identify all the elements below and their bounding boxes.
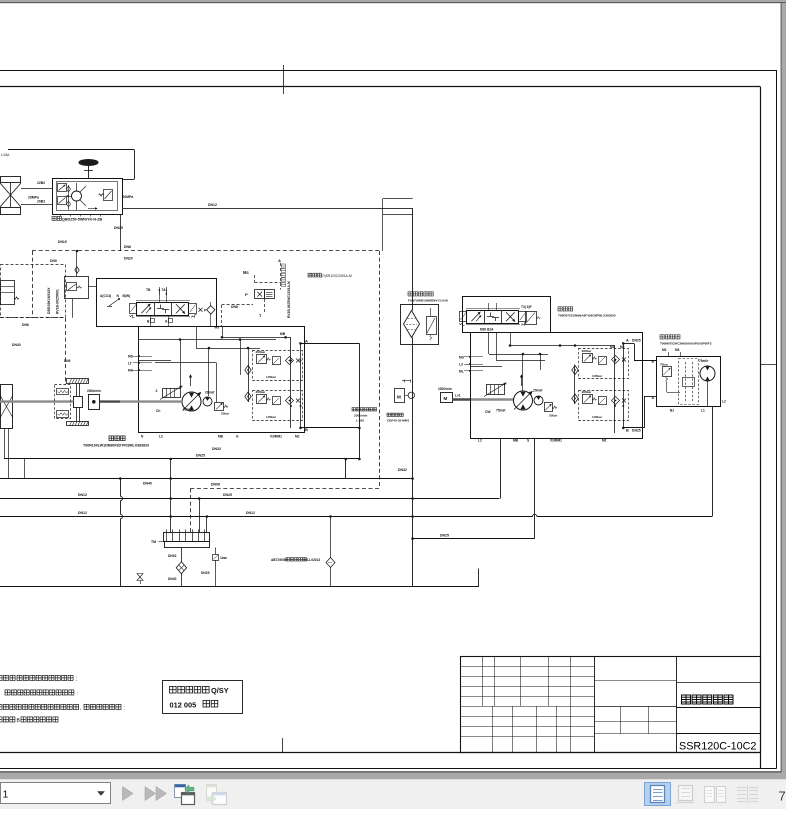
pump2 servo cylinder <box>487 385 505 395</box>
title block middle grid <box>594 680 677 682</box>
svg-text:DN8: DN8 <box>231 305 238 309</box>
wire pump1 AB riser to bus <box>359 343 361 459</box>
svg-text:TA: TA <box>162 288 167 292</box>
svg-text::: : <box>77 691 78 697</box>
steering unit left valve square 2 <box>58 197 67 205</box>
dashed route DN08 drop to manifold <box>190 488 192 533</box>
svg-text:L3: L3 <box>459 363 463 367</box>
pump1 control valve sub-box <box>97 279 217 327</box>
tank return manifold TM <box>164 533 210 542</box>
return filter bypass valve <box>427 317 437 335</box>
wire DN40 drop to manifold <box>170 459 172 533</box>
svg-text:DN25: DN25 <box>632 339 641 343</box>
svg-text:DN08: DN08 <box>211 483 220 487</box>
page number combo box <box>0 783 110 804</box>
wire solenoid block to pump1 valve box <box>88 286 96 288</box>
bus L1 DN25 <box>4 458 359 460</box>
pump2 valve pilot ports <box>488 303 490 310</box>
svg-text:2300/min: 2300/min <box>438 387 452 391</box>
svg-text:A: A <box>305 339 308 344</box>
pump2 internal control wires <box>510 333 512 346</box>
svg-text:DN12: DN12 <box>78 511 87 515</box>
port-A callout corner <box>382 199 384 215</box>
bus L2 DN40 <box>0 478 413 480</box>
wire L5 drop to manifold <box>206 517 208 533</box>
sheet inner frame top <box>0 86 761 88</box>
return filter label <box>408 292 433 296</box>
vibration motor box <box>657 357 721 407</box>
dashed route DN6 left drop <box>32 251 34 318</box>
pump2 name label <box>558 307 573 311</box>
air breather symbol <box>137 574 143 578</box>
return filter drain stub <box>330 517 332 559</box>
svg-text:Mc: Mc <box>243 270 249 275</box>
svg-text:A: A <box>626 339 629 343</box>
svg-text:DN6: DN6 <box>64 359 71 363</box>
label block measuring point <box>352 408 377 411</box>
svg-text:380bar: 380bar <box>582 390 593 394</box>
svg-text:95ml/r: 95ml/r <box>183 408 193 412</box>
steering unit U-ST box <box>53 179 123 215</box>
wire L4 drop to manifold <box>199 499 201 533</box>
svg-text:012 005: 012 005 <box>170 700 197 709</box>
svg-text:1bar: 1bar <box>220 556 228 560</box>
steering unit inner frame <box>57 182 118 211</box>
svg-text:25ml/r: 25ml/r <box>533 389 543 393</box>
dashed pilot Mc lines <box>254 275 256 282</box>
bus L4 DN25 <box>0 498 500 500</box>
dashed route DN08 horizontal <box>190 488 379 490</box>
svg-text:MB: MB <box>280 332 286 336</box>
svg-text:DN25: DN25 <box>196 454 205 458</box>
vibration motor label <box>660 335 680 339</box>
solenoid block drain <box>72 299 74 318</box>
label block coupling model <box>387 413 403 416</box>
svg-text:380bar: 380bar <box>256 350 267 354</box>
notes line 4 <box>0 717 15 722</box>
viewer top shadow strip <box>0 0 786 2</box>
svg-text:145bar: 145bar <box>266 415 277 419</box>
steering unit check to P <box>88 208 97 210</box>
wire pump1 A line <box>301 343 360 345</box>
svg-text:DBDS6K18/315X: DBDS6K18/315X <box>47 287 51 314</box>
svg-text:ML: ML <box>459 370 464 374</box>
svg-text:DN25: DN25 <box>223 493 232 497</box>
steering unit model label <box>52 216 62 220</box>
svg-text:,: , <box>80 706 81 712</box>
svg-text:(O)SR120C2051A-M: (O)SR120C2051A-M <box>321 274 352 278</box>
steering unit port ticks <box>60 214 62 217</box>
svg-text:L1: L1 <box>701 409 705 413</box>
svg-text:75: 75 <box>779 789 786 804</box>
steering unit rotor link <box>80 186 86 192</box>
svg-text:DN12: DN12 <box>78 493 87 497</box>
motor relief valve <box>663 367 672 377</box>
dashed route DN6 right drop <box>379 251 381 488</box>
motor flushing shuttle dashed <box>679 359 699 405</box>
svg-text:B: B <box>652 360 655 364</box>
pump1 up arrow <box>190 375 192 386</box>
drum shaft drive line <box>0 400 73 402</box>
steering cylinder SC1 (cut at left edge) <box>1 177 21 183</box>
title block outline <box>461 657 761 753</box>
svg-text:ABT2900E: ABT2900E <box>271 558 287 562</box>
steering unit left valve square 1 <box>58 184 67 192</box>
layout continuous button (disabled) <box>679 786 693 801</box>
wire DN12 to filter (long top wire) <box>122 208 413 210</box>
svg-text:M2: M2 <box>602 439 607 443</box>
svg-text:M2: M2 <box>610 345 615 349</box>
check valve to DN6 bus <box>76 251 78 276</box>
svg-text:P: P <box>245 292 248 297</box>
drum damper dashed box <box>55 385 71 419</box>
wire steering port stub to pilot bus <box>120 214 122 251</box>
pilot valve T drain dashed <box>264 299 266 312</box>
svg-text:22B2: 22B2 <box>37 181 45 185</box>
svg-text:T90M075ZHC3N08A8A5PG65PB/F3: T90M075ZHC3N08A8A5PG65PB/F3 <box>660 342 712 346</box>
tank line <box>0 586 479 588</box>
pressure gauge M box <box>395 389 405 403</box>
svg-text:B1: B1 <box>670 409 674 413</box>
layout single-page button (active) <box>645 783 671 806</box>
pump1 main box <box>139 327 305 433</box>
svg-text:S: S <box>527 439 529 443</box>
pump1 charge check valves <box>248 365 250 403</box>
wire steering return top <box>8 149 134 151</box>
layout two-page-continuous button (disabled) <box>737 787 746 789</box>
svg-text:M30 B1A: M30 B1A <box>480 328 494 332</box>
sheet inner frame right <box>760 87 762 769</box>
svg-text:20MPa: 20MPa <box>123 195 134 199</box>
toolbar background <box>0 779 786 809</box>
steering wheel <box>79 160 98 166</box>
pump1 valve manual lever <box>109 299 119 306</box>
dashed pilot drop to M3 <box>221 305 223 327</box>
svg-text:DN32: DN32 <box>398 468 407 472</box>
vibratory drum lower bearing <box>67 422 89 426</box>
title block drawing name text (hydraulic schematic) <box>682 695 734 704</box>
wire pump2 case drain to filter column <box>534 438 536 539</box>
drum damper lower <box>57 411 69 418</box>
pump1 multifunction block upper <box>253 351 303 381</box>
wire steering return drop <box>134 150 136 180</box>
pump1 X-P check diamond <box>199 308 203 312</box>
accumulator/valve (cut at edge) <box>1 281 15 305</box>
svg-text:DN02: DN02 <box>168 554 177 558</box>
pump1 drive shaft in <box>100 400 121 402</box>
pilot supply dashed box left <box>1 265 66 318</box>
dashed route bottom-left horizontal <box>0 317 65 319</box>
wire pump2 A to motor <box>623 343 634 345</box>
tank breather valve 1bar <box>215 548 217 555</box>
svg-text:75ml/r: 75ml/r <box>496 409 506 413</box>
svg-text:Ch: Ch <box>156 409 160 413</box>
svg-text:380bar: 380bar <box>582 349 593 353</box>
wire steering cylinder to steering unit port R <box>21 204 52 206</box>
svg-text:M2: M2 <box>662 348 667 352</box>
gauge coupling arrow <box>402 380 410 382</box>
toolbar last-page button <box>145 787 156 801</box>
svg-text:145bar: 145bar <box>592 374 603 378</box>
svg-text:X3/MM1: X3/MM1 <box>270 435 282 439</box>
svg-text:2: 2 <box>156 389 158 393</box>
solenoid block valve <box>67 283 77 291</box>
steering unit metering rotor <box>72 191 82 201</box>
svg-text:M: M <box>397 395 401 400</box>
svg-text:DN40: DN40 <box>143 482 152 486</box>
svg-text:T90R075ZON8NA8F4J8G8PWLX383830: T90R075ZON8NA8F4J8G8PWLX383830 <box>558 314 616 318</box>
svg-text:DN25: DN25 <box>440 534 449 538</box>
wire filter inlet <box>412 208 414 311</box>
inline strainer ABT2900E <box>326 558 335 568</box>
wire L5 riser to motor drain <box>712 407 714 517</box>
svg-text:145bar: 145bar <box>266 375 277 379</box>
title block right column rows <box>677 682 761 684</box>
wire pump2 L2 drain <box>500 438 502 499</box>
svg-text:DN32: DN32 <box>212 447 221 451</box>
svg-text:L2: L2 <box>159 435 163 439</box>
pump2 main pump P2 (75ml/r) <box>514 391 533 410</box>
drum damper upper <box>57 389 69 395</box>
sheet centering mark right <box>761 364 777 366</box>
svg-text:DN6: DN6 <box>22 323 29 327</box>
bus L5 DN12 <box>0 516 533 518</box>
svg-text:230b/min: 230b/min <box>87 389 101 393</box>
svg-text:DN25: DN25 <box>632 429 641 433</box>
svg-text:M2: M2 <box>295 435 300 439</box>
sheet centering mark bottom <box>282 738 284 753</box>
svg-text:1: 1 <box>3 789 9 801</box>
svg-text:MB: MB <box>218 435 224 439</box>
pump1 A/B risers <box>290 337 292 428</box>
svg-text:A(CC4): A(CC4) <box>100 294 111 298</box>
left travel gearbox (cut at edge) <box>1 385 13 429</box>
drum shaft <box>76 383 78 421</box>
tank line stub up <box>478 569 480 587</box>
svg-text:LT: LT <box>128 362 132 366</box>
svg-text:T3( 3)P: T3( 3)P <box>521 305 533 309</box>
return filter element <box>404 311 420 338</box>
motor M1 symbol <box>700 366 715 381</box>
svg-text:RV1B-06Z5W01: RV1B-06Z5W01 <box>56 289 60 314</box>
svg-text:QBDZ50-5WN/YK-N-ZB: QBDZ50-5WN/YK-N-ZB <box>62 218 102 222</box>
sheet outer border right <box>776 70 778 769</box>
svg-text:DN25: DN25 <box>114 226 123 230</box>
pump2 main box <box>471 333 643 439</box>
svg-text:DN12: DN12 <box>246 511 255 515</box>
svg-text:011-02013: 011-02013 <box>305 558 320 562</box>
label ABT2900E strainer <box>0 0 1 1</box>
pump2 directional valve DV2 <box>466 308 520 310</box>
steering unit check valves <box>68 185 70 210</box>
svg-text:B: B <box>626 429 629 433</box>
horizontal text manifold model <box>308 273 321 277</box>
svg-text:M3: M3 <box>620 345 625 349</box>
wire callout to pilot bus <box>382 215 384 251</box>
wire pump1 B line <box>301 427 360 429</box>
svg-text:CBF45-25-MM1: CBF45-25-MM1 <box>387 419 409 423</box>
viewer bottom background band <box>0 771 782 772</box>
svg-text:L2: L2 <box>478 439 482 443</box>
dashed route to drum box <box>65 318 67 385</box>
pump2 control valve sub-box <box>463 297 551 333</box>
pump1 charge relief valve <box>215 403 224 411</box>
svg-text:M3: M3 <box>675 348 680 352</box>
wire drain link <box>24 459 26 479</box>
svg-text:20B2: 20B2 <box>37 200 45 204</box>
svg-text:B(W): B(W) <box>123 294 131 298</box>
toolbar previous-view icon <box>175 785 186 798</box>
dashed pilot to main valve <box>222 304 253 306</box>
svg-text:TB: TB <box>146 288 151 292</box>
pump2 up arrow <box>521 375 523 386</box>
pump2 A/B risers <box>614 346 616 434</box>
svg-text:X3/MM1: X3/MM1 <box>550 439 562 443</box>
sheet outer border top <box>0 70 777 72</box>
title block vertical divider middle <box>676 656 678 752</box>
pump2 aux valve <box>526 312 537 325</box>
drum vibration motor M <box>89 395 100 410</box>
svg-text:Lv1: Lv1 <box>455 394 461 398</box>
svg-text:Q/SY: Q/SY <box>211 686 229 695</box>
svg-text:DN9: DN9 <box>50 259 57 263</box>
svg-text:L2: L2 <box>722 400 726 404</box>
svg-text::: : <box>124 706 125 712</box>
svg-text:DN12: DN12 <box>208 203 217 207</box>
svg-text:SSR120C-10C2: SSR120C-10C2 <box>679 740 756 752</box>
pump2 multifunction block lower <box>579 391 629 421</box>
svg-text:L15A: L15A <box>1 153 10 157</box>
svg-text:CW: CW <box>485 410 491 414</box>
notes line 1 <box>0 675 9 680</box>
sheet inner frame bottom <box>0 752 761 754</box>
svg-text:;: ; <box>76 677 77 683</box>
product standard box <box>163 681 243 714</box>
solenoid block sub-box <box>65 277 89 299</box>
bus L1 step down <box>345 459 347 479</box>
pump2 charge pump <box>534 396 543 405</box>
pump1 charge pump <box>203 397 212 406</box>
pump1 directional valve DV1 <box>136 300 190 302</box>
pump2 charge relief valve <box>545 403 553 412</box>
svg-text:L-420: L-420 <box>356 419 364 423</box>
return filter box <box>401 305 439 345</box>
wire filter outlet to tank bus <box>412 338 414 587</box>
sheet outer border bottom <box>0 768 777 770</box>
layout two-page button (disabled) <box>705 787 715 803</box>
svg-text:MS: MS <box>459 356 465 360</box>
pump2 drive shaft <box>452 398 470 400</box>
svg-text:MA: MA <box>128 369 134 373</box>
wire pump2 B to motor <box>623 427 644 429</box>
viewer right background band <box>782 3 786 779</box>
steering unit relief valve <box>104 190 113 201</box>
svg-text:A: A <box>278 258 281 263</box>
title block vertical divider left-table <box>594 656 596 752</box>
svg-text:A: A <box>652 396 655 400</box>
svg-text:DN15: DN15 <box>58 240 67 244</box>
sheet centering mark top <box>283 65 285 94</box>
wire gearbox drains <box>4 428 6 459</box>
svg-text:145bar: 145bar <box>592 415 603 419</box>
svg-text:DN20: DN20 <box>124 257 133 261</box>
svg-text:MB: MB <box>513 439 519 443</box>
pump1 multifunction block lower <box>253 391 303 421</box>
notes line 2 <box>5 690 74 695</box>
svg-text:380bar: 380bar <box>256 390 267 394</box>
wire DN40 drop to tank line <box>120 479 122 497</box>
notes line 3 <box>0 704 79 709</box>
svg-text:TM: TM <box>151 540 156 544</box>
svg-text:T90R100LW1NN80F3DTF03MLX383820: T90R100LW1NN80F3DTF03MLX383820 <box>83 443 149 447</box>
svg-text:DN40: DN40 <box>12 343 21 347</box>
pump2 multifunction block upper <box>579 349 629 379</box>
pump1 main pump P1 (95ml/r) <box>182 392 201 411</box>
toolbar next-view icon (disabled) <box>207 785 218 798</box>
svg-text:28ml/r: 28ml/r <box>205 391 215 395</box>
svg-text:FAN7AWB100MDNV-CL04A: FAN7AWB100MDNV-CL04A <box>408 299 449 303</box>
drum eccentric gearbox <box>74 397 83 408</box>
wire steering cylinder to steering unit port L <box>21 188 52 190</box>
svg-text:DN40: DN40 <box>168 577 177 581</box>
gauge quick coupling <box>405 395 409 397</box>
vertical text steering priority valve model <box>282 264 286 287</box>
motor internal wires <box>707 381 709 407</box>
svg-text:DN25: DN25 <box>201 571 210 575</box>
engine M box for pump2 <box>441 393 453 403</box>
svg-text:20bar: 20bar <box>549 414 558 418</box>
title block left table grid <box>461 666 594 668</box>
svg-text:20bar: 20bar <box>221 412 230 416</box>
pilot shuttle valve body <box>255 290 265 299</box>
pump1 name label <box>109 436 125 441</box>
svg-text:70bar: 70bar <box>660 363 669 367</box>
svg-text:75ml/r: 75ml/r <box>699 359 709 363</box>
svg-text:MS: MS <box>128 355 134 359</box>
vibratory drum upper bearing <box>67 379 89 384</box>
pump1 servo cylinder <box>163 389 181 398</box>
svg-text:DN6: DN6 <box>124 245 131 249</box>
svg-text:230b/min: 230b/min <box>354 414 368 418</box>
svg-text:RV1B-06Z5WC1S51A-M: RV1B-06Z5WC1S51A-M <box>287 281 291 318</box>
pump1 internal control wires <box>222 327 224 337</box>
pump2 charge check valves <box>574 365 576 405</box>
svg-text:M: M <box>444 396 448 401</box>
product standard text line1 <box>170 686 210 693</box>
pump2 case drain drop <box>534 437 536 439</box>
toolbar next-page button <box>123 787 134 801</box>
suction strainer <box>181 548 183 563</box>
svg-text:M3: M3 <box>215 326 220 330</box>
dashed route DN6 top edge <box>32 250 380 252</box>
